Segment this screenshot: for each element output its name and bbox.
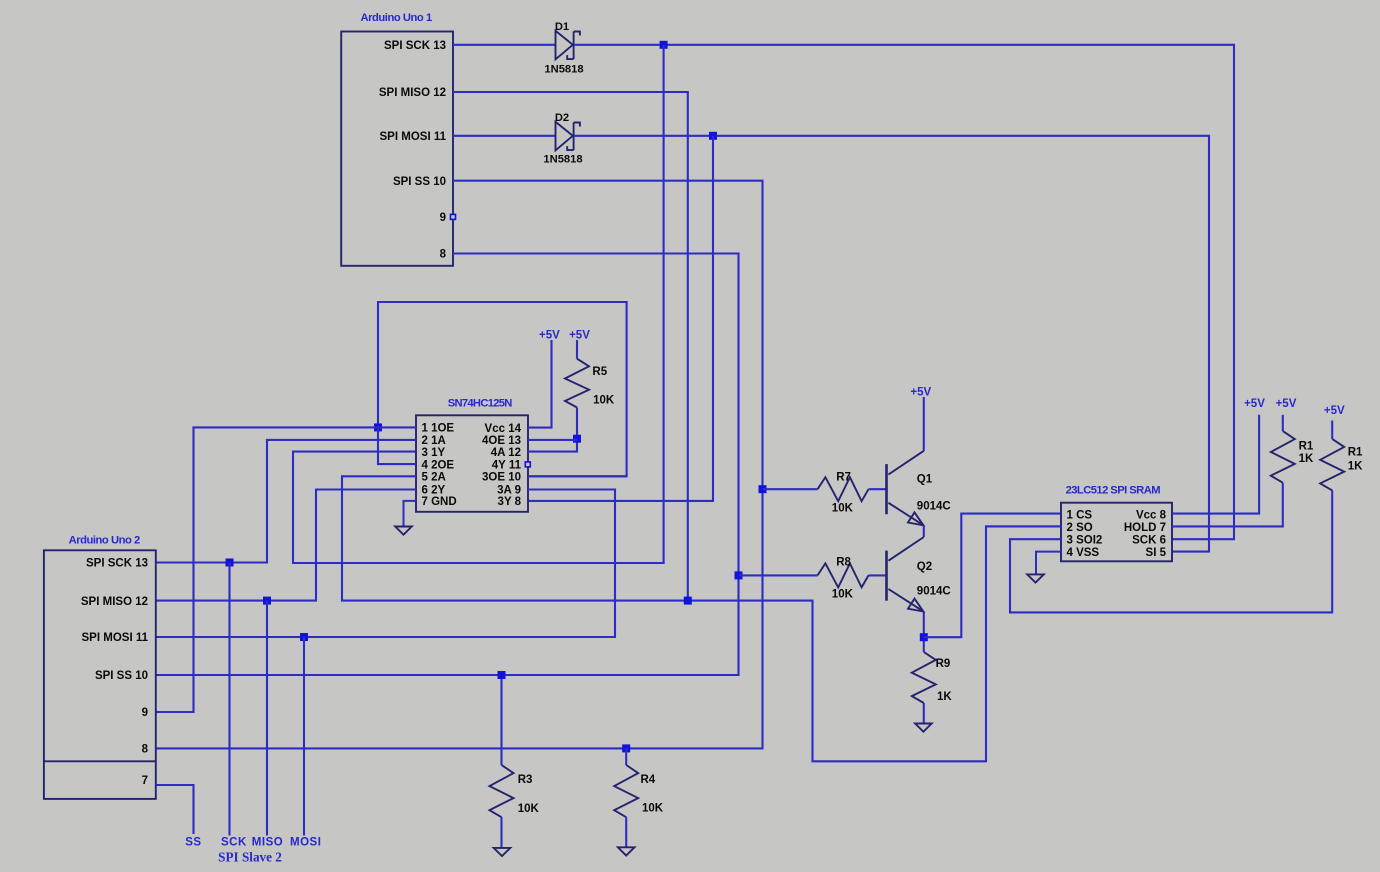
wire Q1 emitter to Q2 collector bbox=[923, 526, 925, 538]
svg-text:+5V: +5V bbox=[569, 330, 590, 342]
junction MOSI-A2 column bbox=[300, 633, 308, 641]
IC U1 SN74HC125N box bbox=[416, 415, 528, 512]
svg-text:1 1OE: 1 1OE bbox=[422, 423, 455, 435]
svg-text:9: 9 bbox=[142, 707, 148, 719]
junction SS-A2 at R3 bbox=[498, 671, 506, 679]
ground symbol R3 bbox=[494, 848, 511, 856]
ground symbol U2 VSS bbox=[1027, 574, 1044, 582]
svg-text:SPI SS 10: SPI SS 10 bbox=[393, 176, 446, 188]
svg-text:R1: R1 bbox=[1348, 447, 1363, 459]
svg-text:10K: 10K bbox=[518, 803, 540, 815]
svg-text:SPI MISO 12: SPI MISO 12 bbox=[81, 596, 148, 608]
IC Arduino Uno 1 box bbox=[341, 32, 453, 266]
resistor R3 10K bbox=[490, 765, 514, 817]
wire MOSI junction down to 3Y8 bbox=[528, 136, 713, 501]
wire A1 SCK13 to D1 anode bbox=[453, 44, 556, 46]
junction SCK-A2 column bbox=[226, 559, 234, 567]
svg-text:R5: R5 bbox=[592, 366, 607, 378]
svg-text:4A 12: 4A 12 bbox=[491, 447, 521, 459]
wire A2 pin7 to SS column bbox=[156, 785, 194, 834]
wire A1 SS10 down to R7/row8 bbox=[156, 181, 763, 749]
transistor Q2 9014C bbox=[885, 551, 888, 601]
svg-text:8: 8 bbox=[142, 744, 149, 756]
wire R7 right lead to Q1 base bbox=[869, 488, 887, 490]
wire SRAM SO to MISO bus loop bbox=[986, 525, 1061, 527]
svg-text:10K: 10K bbox=[832, 503, 854, 515]
svg-text:R9: R9 bbox=[936, 658, 951, 670]
wire R5 bottom lead to 4OE/4A bbox=[528, 408, 577, 452]
junction loop at pin1 1OE row bbox=[374, 423, 382, 431]
svg-text:D1: D1 bbox=[555, 21, 569, 33]
wire Vcc14 to +5V bbox=[528, 340, 552, 428]
wire +5V to Q1 collector bbox=[923, 397, 925, 451]
wire SRAM HOLD7 to R1a bbox=[1172, 483, 1283, 527]
svg-text:SCK: SCK bbox=[221, 837, 247, 849]
wire OE loop rectangle bbox=[378, 302, 627, 476]
svg-text:9014C: 9014C bbox=[917, 500, 951, 512]
junction MISO bus at A1-MISO vertical bbox=[684, 597, 692, 605]
wire R8 right lead to Q2 base bbox=[869, 574, 887, 576]
resistor R1b 1K bbox=[1320, 439, 1344, 491]
wire A1 MISO12 right and down bbox=[453, 92, 688, 601]
diode D1 1N5818 bbox=[556, 31, 573, 60]
resistor R4 10K bbox=[614, 765, 638, 817]
wire MISO label column bbox=[266, 601, 268, 836]
svg-text:R1: R1 bbox=[1299, 441, 1314, 453]
svg-text:1N5818: 1N5818 bbox=[544, 64, 583, 76]
svg-text:MISO: MISO bbox=[252, 837, 283, 849]
svg-text:3 1Y: 3 1Y bbox=[422, 447, 446, 459]
svg-text:SPI MISO 12: SPI MISO 12 bbox=[379, 87, 446, 99]
wire SCK junction down to 1Y row bbox=[293, 45, 664, 563]
svg-text:Arduino Uno 1: Arduino Uno 1 bbox=[361, 12, 432, 24]
wire D1 cathode to SRAM SCK6 (net SCK right) bbox=[574, 45, 1234, 539]
svg-text:5 2A: 5 2A bbox=[422, 472, 446, 484]
wire A2 SCK row to pin2 1A bbox=[156, 440, 416, 563]
svg-text:10K: 10K bbox=[593, 394, 615, 406]
resistor R1a 1K bbox=[1271, 431, 1295, 483]
svg-text:SPI SCK 13: SPI SCK 13 bbox=[384, 40, 446, 52]
wire SCK label column bbox=[228, 563, 230, 836]
svg-text:+5V: +5V bbox=[1324, 405, 1345, 417]
wire pin1 1OE to A2 pin9 bbox=[156, 427, 416, 712]
svg-text:1K: 1K bbox=[1299, 453, 1314, 465]
wire R1a top lead to +5V bbox=[1282, 415, 1284, 431]
svg-text:6 2Y: 6 2Y bbox=[422, 485, 446, 497]
svg-text:3OE 10: 3OE 10 bbox=[482, 472, 521, 484]
svg-text:3 SOI2: 3 SOI2 bbox=[1067, 534, 1103, 546]
svg-text:+5V: +5V bbox=[1244, 398, 1265, 410]
svg-text:2 1A: 2 1A bbox=[422, 435, 446, 447]
ground symbol R4 bbox=[618, 847, 635, 855]
svg-text:9014C: 9014C bbox=[917, 586, 951, 598]
svg-text:23LC512 SPI SRAM: 23LC512 SPI SRAM bbox=[1066, 484, 1161, 496]
wire loop to pin4 2OE bbox=[378, 427, 416, 464]
svg-text:R8: R8 bbox=[836, 556, 851, 568]
junction SS-A1 at R7 base bbox=[759, 485, 767, 493]
svg-text:R7: R7 bbox=[836, 471, 851, 483]
wire D2 cathode to SRAM SI5 (net MOSI right) bbox=[574, 136, 1209, 552]
unconnected pin marker U1 pin 11 4Y bbox=[525, 462, 530, 467]
svg-text:8: 8 bbox=[440, 249, 447, 261]
junction Q2 emitter node bbox=[920, 633, 928, 641]
svg-text:3A 9: 3A 9 bbox=[497, 485, 521, 497]
wire R1b top lead to +5V bbox=[1331, 421, 1333, 439]
junction SCK-A1 node bbox=[660, 41, 668, 49]
svg-text:SPI MOSI 11: SPI MOSI 11 bbox=[82, 632, 149, 644]
resistor R8 10K bbox=[818, 563, 869, 587]
resistor R7 10K bbox=[818, 477, 869, 501]
junction row8-A2 at R4 bbox=[622, 744, 630, 752]
wire R4 bottom lead bbox=[625, 817, 627, 847]
svg-text:R4: R4 bbox=[641, 774, 656, 786]
svg-text:1K: 1K bbox=[937, 691, 952, 703]
svg-text:Arduino Uno 2: Arduino Uno 2 bbox=[69, 535, 140, 547]
junction R5 at 4OE13 row bbox=[573, 435, 581, 443]
wire MOSI label column bbox=[303, 637, 305, 836]
svg-text:SS: SS bbox=[185, 837, 201, 849]
wire 4OE13 row bbox=[528, 439, 577, 441]
svg-text:SI 5: SI 5 bbox=[1146, 547, 1167, 559]
wire pin5 2A to MISO bus row bbox=[342, 476, 1061, 761]
wire A1 pin8 down to R8/SS-A2 row bbox=[156, 254, 739, 676]
svg-text:7 GND: 7 GND bbox=[422, 496, 457, 508]
IC Arduino Uno 2 box bbox=[44, 550, 156, 799]
wire A1 MOSI11 to D2 anode bbox=[453, 135, 556, 137]
wire SRAM Vcc8 to +5V bbox=[1172, 415, 1259, 514]
svg-text:+5V: +5V bbox=[910, 387, 931, 399]
svg-text:SPI MOSI 11: SPI MOSI 11 bbox=[380, 131, 447, 143]
svg-text:4Y 11: 4Y 11 bbox=[492, 459, 522, 471]
svg-text:10K: 10K bbox=[642, 802, 664, 814]
svg-text:4 VSS: 4 VSS bbox=[1067, 547, 1100, 559]
wire R7 left lead bbox=[763, 488, 818, 490]
wire R5 top lead bbox=[576, 340, 578, 359]
junction MOSI-A1 node bbox=[709, 132, 717, 140]
svg-text:+5V: +5V bbox=[539, 330, 560, 342]
resistor R5 10K bbox=[565, 359, 589, 408]
svg-text:7: 7 bbox=[142, 775, 148, 787]
svg-text:2 SO: 2 SO bbox=[1067, 522, 1093, 534]
junction pin8-A1 at R8 base bbox=[735, 571, 743, 579]
Arduino Uno 2 box divider bbox=[44, 760, 156, 762]
svg-text:4OE 13: 4OE 13 bbox=[482, 435, 521, 447]
ground symbol U1 GND bbox=[395, 527, 412, 535]
wire A2 MISO row to pin6 2Y bbox=[156, 490, 416, 601]
wire A2 MOSI row to pin9 3A bbox=[156, 490, 615, 638]
wire R8 left lead bbox=[739, 574, 818, 576]
svg-text:R3: R3 bbox=[518, 774, 533, 786]
svg-text:SPI Slave 2: SPI Slave 2 bbox=[218, 850, 282, 865]
svg-text:1N5818: 1N5818 bbox=[543, 154, 582, 166]
svg-text:SPI SCK 13: SPI SCK 13 bbox=[86, 558, 148, 570]
svg-text:+5V: +5V bbox=[1276, 398, 1297, 410]
svg-text:MOSI: MOSI bbox=[290, 837, 321, 849]
junction MISO-A2 column bbox=[263, 597, 271, 605]
svg-text:1 CS: 1 CS bbox=[1067, 510, 1093, 522]
wire R3 bottom lead bbox=[500, 817, 502, 848]
diode D2 1N5818 bbox=[556, 122, 573, 151]
svg-text:4 2OE: 4 2OE bbox=[422, 459, 455, 471]
unconnected pin marker A1 pin 9 bbox=[451, 214, 456, 219]
wire emitter node to SRAM CS bbox=[924, 514, 1061, 638]
ground symbol R9 bbox=[915, 724, 932, 732]
wire R3 top lead from SS-A2 row bbox=[500, 675, 502, 765]
svg-text:10K: 10K bbox=[832, 589, 854, 601]
IC U2 23LC512 SPI SRAM box bbox=[1061, 503, 1172, 562]
wire Q2 emitter to junction bbox=[923, 612, 925, 652]
svg-text:D2: D2 bbox=[555, 112, 569, 124]
wire pin10 3OE stub bbox=[528, 475, 627, 477]
svg-text:SPI SS 10: SPI SS 10 bbox=[95, 670, 148, 682]
svg-text:Vcc 14: Vcc 14 bbox=[485, 423, 522, 435]
ground U2 VSS stem bbox=[1036, 552, 1061, 575]
svg-text:HOLD 7: HOLD 7 bbox=[1124, 522, 1166, 534]
ground U1 pin7 GND stem bbox=[404, 501, 417, 527]
resistor R9 1K bbox=[912, 652, 936, 703]
svg-text:SN74HC125N: SN74HC125N bbox=[448, 398, 513, 410]
wire R9 bottom lead bbox=[923, 703, 925, 724]
svg-text:3Y 8: 3Y 8 bbox=[498, 496, 522, 508]
svg-text:SCK 6: SCK 6 bbox=[1132, 534, 1166, 546]
transistor Q1 9014C bbox=[885, 464, 888, 514]
wire R4 top lead from row8 bbox=[625, 748, 627, 765]
svg-text:Q1: Q1 bbox=[917, 474, 933, 486]
svg-text:Q2: Q2 bbox=[917, 561, 932, 573]
wire SRAM SOI2 down and right to R1b bbox=[1010, 490, 1332, 612]
svg-text:Vcc 8: Vcc 8 bbox=[1136, 510, 1167, 522]
svg-text:9: 9 bbox=[440, 212, 446, 224]
svg-text:1K: 1K bbox=[1348, 461, 1363, 473]
